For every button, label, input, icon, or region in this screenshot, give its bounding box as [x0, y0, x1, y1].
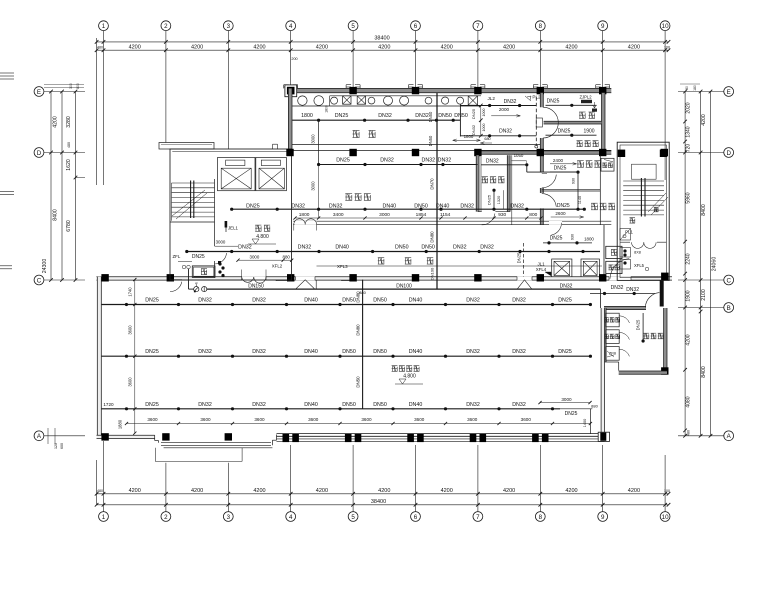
svg-text:4200: 4200	[378, 45, 390, 51]
svg-text:5: 5	[351, 514, 355, 521]
svg-text:8400: 8400	[53, 209, 59, 221]
svg-text:DN25: DN25	[192, 254, 205, 260]
svg-text:DN32: DN32	[329, 203, 343, 209]
svg-text:DN32: DN32	[512, 298, 526, 304]
svg-text:DN32: DN32	[380, 158, 394, 164]
svg-text:DN25: DN25	[145, 298, 159, 304]
svg-text:4200: 4200	[565, 488, 577, 494]
svg-text:DN40: DN40	[304, 349, 318, 355]
svg-text:DN32: DN32	[198, 402, 212, 408]
svg-text:DN100: DN100	[396, 284, 412, 290]
svg-text:DN32: DN32	[460, 203, 474, 209]
svg-text:JL1: JL1	[537, 261, 545, 266]
svg-text:D: D	[37, 150, 42, 157]
svg-text:DN32: DN32	[499, 129, 512, 135]
svg-text:1720: 1720	[103, 402, 114, 407]
svg-text:DN80: DN80	[355, 291, 360, 303]
svg-text:DN50: DN50	[373, 349, 387, 355]
svg-text:2: 2	[164, 23, 168, 30]
svg-text:1620: 1620	[66, 159, 72, 171]
svg-text:4200: 4200	[441, 488, 453, 494]
svg-text:480: 480	[687, 430, 691, 436]
svg-text:3600: 3600	[308, 417, 319, 422]
svg-text:ZFL: ZFL	[172, 254, 180, 259]
svg-text:JL2: JL2	[487, 96, 495, 101]
svg-text:DN80: DN80	[355, 324, 360, 336]
svg-text:DN150: DN150	[248, 284, 264, 290]
svg-text:4: 4	[289, 514, 293, 521]
svg-text:ZJPL2: ZJPL2	[579, 94, 592, 99]
svg-text:DN100: DN100	[430, 267, 435, 280]
svg-text:3: 3	[227, 23, 231, 30]
svg-text:DN25: DN25	[558, 298, 572, 304]
svg-text:9: 9	[601, 514, 605, 521]
svg-text:4200: 4200	[503, 488, 515, 494]
svg-text:XFL5: XFL5	[634, 263, 645, 268]
svg-text:DN40: DN40	[409, 298, 423, 304]
svg-text:DN25: DN25	[565, 411, 578, 417]
svg-text:DN50: DN50	[438, 113, 452, 119]
svg-text:880: 880	[283, 254, 291, 259]
svg-text:DN25: DN25	[557, 203, 570, 209]
svg-text:180: 180	[693, 85, 697, 91]
svg-text:1050: 1050	[514, 153, 524, 158]
svg-text:8400: 8400	[701, 204, 707, 216]
svg-text:DN32: DN32	[512, 349, 526, 355]
svg-text:4200: 4200	[191, 45, 203, 51]
svg-text:6: 6	[414, 23, 418, 30]
svg-text:DN32: DN32	[198, 298, 212, 304]
svg-text:DN50: DN50	[428, 135, 433, 146]
svg-text:8: 8	[539, 23, 543, 30]
svg-text:DN40: DN40	[409, 402, 423, 408]
svg-text:4200: 4200	[129, 45, 141, 51]
svg-text:1740: 1740	[128, 287, 133, 297]
svg-text:9: 9	[601, 23, 605, 30]
svg-text:DN32: DN32	[252, 402, 266, 408]
svg-text:DN32: DN32	[298, 245, 312, 251]
svg-text:DN40: DN40	[436, 203, 450, 209]
svg-text:4080: 4080	[686, 396, 692, 407]
svg-text:4200: 4200	[316, 488, 328, 494]
svg-text:4200: 4200	[316, 45, 328, 51]
svg-text:1: 1	[102, 23, 106, 30]
svg-text:DN32: DN32	[453, 245, 467, 251]
svg-text:3000: 3000	[311, 134, 316, 144]
svg-text:880: 880	[591, 403, 598, 408]
svg-text:2: 2	[164, 514, 168, 521]
svg-text:1320: 1320	[497, 196, 501, 204]
svg-text:1800: 1800	[299, 212, 310, 218]
svg-text:DN40: DN40	[409, 349, 423, 355]
svg-text:4: 4	[289, 23, 293, 30]
svg-text:DN25: DN25	[554, 166, 567, 172]
svg-text:4200: 4200	[253, 45, 265, 51]
svg-text:4200: 4200	[378, 488, 390, 494]
svg-text:480: 480	[67, 142, 71, 148]
svg-text:1: 1	[102, 514, 106, 521]
svg-text:10: 10	[662, 514, 669, 521]
svg-text:1340: 1340	[686, 126, 692, 137]
svg-text:8: 8	[539, 514, 543, 521]
svg-text:1140: 1140	[578, 196, 582, 204]
svg-text:DN32: DN32	[291, 203, 305, 209]
svg-text:XFL4: XFL4	[536, 267, 547, 272]
svg-text:5: 5	[351, 23, 355, 30]
svg-text:800: 800	[529, 212, 537, 218]
svg-text:7: 7	[476, 514, 480, 521]
svg-text:DN32: DN32	[415, 113, 429, 119]
svg-text:1000: 1000	[482, 109, 486, 117]
svg-text:DN25: DN25	[145, 402, 159, 408]
svg-text:3000: 3000	[250, 254, 260, 259]
svg-text:7: 7	[476, 23, 480, 30]
svg-text:DN25: DN25	[335, 113, 349, 119]
svg-text:3000: 3000	[379, 212, 390, 218]
svg-text:800: 800	[76, 83, 80, 89]
svg-text:3600: 3600	[521, 417, 532, 422]
svg-text:4.800: 4.800	[403, 374, 416, 380]
svg-text:DN32: DN32	[560, 284, 573, 290]
svg-text:3600: 3600	[200, 417, 211, 422]
svg-text:3600: 3600	[128, 325, 133, 335]
svg-text:DN50: DN50	[421, 245, 435, 251]
svg-text:XFL3: XFL3	[337, 264, 348, 269]
svg-text:4200: 4200	[628, 488, 640, 494]
svg-text:E: E	[37, 89, 41, 96]
svg-text:DN25: DN25	[550, 235, 563, 241]
svg-text:1900: 1900	[686, 290, 692, 301]
svg-text:JEL1: JEL1	[228, 226, 239, 231]
svg-text:3600: 3600	[467, 417, 478, 422]
svg-text:3600: 3600	[361, 417, 372, 422]
svg-text:DN25: DN25	[145, 349, 159, 355]
svg-text:3000: 3000	[311, 181, 316, 191]
svg-text:1900: 1900	[583, 128, 594, 134]
svg-text:DN32: DN32	[480, 245, 494, 251]
svg-text:DN50: DN50	[373, 298, 387, 304]
svg-text:PL1: PL1	[625, 230, 633, 235]
svg-text:4200: 4200	[565, 45, 577, 51]
svg-text:5960: 5960	[686, 192, 692, 203]
svg-text:DN32: DN32	[471, 124, 476, 135]
svg-text:DN70: DN70	[430, 178, 435, 190]
svg-text:DN32: DN32	[486, 159, 499, 165]
svg-text:C: C	[726, 277, 731, 284]
svg-text:4200: 4200	[628, 45, 640, 51]
svg-text:2020: 2020	[686, 102, 692, 113]
svg-text:D: D	[726, 150, 731, 157]
svg-text:DN25: DN25	[336, 158, 350, 164]
svg-text:10: 10	[662, 23, 669, 30]
svg-text:DN25: DN25	[558, 349, 572, 355]
svg-text:DN32: DN32	[378, 113, 392, 119]
svg-text:DN25: DN25	[471, 108, 476, 119]
svg-text:300: 300	[69, 83, 73, 89]
svg-text:DN40: DN40	[304, 402, 318, 408]
svg-text:DN32: DN32	[422, 158, 436, 164]
svg-text:DN32: DN32	[611, 285, 624, 291]
svg-text:DN32: DN32	[438, 158, 452, 164]
svg-text:2240: 2240	[686, 253, 692, 264]
svg-text:1854: 1854	[416, 212, 427, 218]
svg-text:600: 600	[60, 443, 64, 449]
svg-text:3000: 3000	[216, 240, 226, 245]
svg-text:2600: 2600	[555, 211, 566, 216]
svg-text:4200: 4200	[53, 116, 59, 128]
svg-text:4200: 4200	[503, 45, 515, 51]
svg-text:DN50: DN50	[355, 376, 360, 388]
svg-text:DN32: DN32	[466, 298, 480, 304]
svg-text:6780: 6780	[66, 220, 72, 232]
svg-text:DN32: DN32	[198, 349, 212, 355]
svg-text:DN40: DN40	[383, 203, 397, 209]
svg-text:DN50: DN50	[342, 298, 356, 304]
svg-text:8400: 8400	[701, 366, 707, 378]
svg-text:4200: 4200	[701, 114, 707, 126]
svg-text:1800: 1800	[301, 113, 313, 119]
svg-text:PL2: PL2	[532, 95, 541, 100]
svg-text:930: 930	[570, 234, 574, 240]
svg-text:4200: 4200	[129, 488, 141, 494]
svg-text:120: 120	[54, 443, 58, 449]
svg-text:1800: 1800	[584, 237, 594, 242]
svg-text:1154: 1154	[440, 212, 451, 218]
svg-text:DN50: DN50	[414, 203, 428, 209]
svg-text:4200: 4200	[253, 488, 265, 494]
svg-text:E: E	[727, 89, 731, 96]
svg-text:DN25: DN25	[636, 319, 641, 330]
svg-text:6: 6	[414, 514, 418, 521]
svg-text:DN32: DN32	[512, 402, 526, 408]
svg-text:80: 80	[685, 86, 689, 90]
svg-text:3600: 3600	[128, 377, 133, 387]
svg-text:B: B	[727, 305, 731, 312]
svg-text:DN40: DN40	[304, 298, 318, 304]
svg-text:DN32: DN32	[252, 349, 266, 355]
svg-text:2400: 2400	[553, 158, 564, 163]
svg-text:DN50: DN50	[454, 113, 468, 119]
svg-text:8X8: 8X8	[634, 251, 641, 255]
svg-text:DN32: DN32	[238, 245, 252, 251]
svg-text:24300: 24300	[42, 259, 48, 274]
svg-text:3600: 3600	[254, 417, 265, 422]
svg-text:3600: 3600	[414, 417, 425, 422]
svg-text:DN32: DN32	[626, 287, 639, 293]
svg-text:1400: 1400	[583, 419, 587, 427]
svg-text:DN25: DN25	[246, 203, 260, 209]
svg-text:2100: 2100	[701, 289, 707, 301]
svg-text:1000: 1000	[482, 124, 486, 132]
svg-text:XFL2: XFL2	[272, 263, 283, 268]
svg-text:DN32: DN32	[252, 298, 266, 304]
svg-text:3600: 3600	[147, 417, 158, 422]
svg-text:930: 930	[571, 178, 575, 184]
svg-text:1800: 1800	[325, 105, 329, 113]
svg-text:DN80: DN80	[430, 231, 435, 243]
svg-text:C: C	[37, 277, 42, 284]
svg-text:2000: 2000	[499, 107, 510, 112]
svg-text:4200: 4200	[441, 45, 453, 51]
svg-text:DN32: DN32	[510, 203, 524, 209]
svg-text:200: 200	[291, 57, 297, 61]
svg-text:DN32: DN32	[466, 402, 480, 408]
svg-text:DN25: DN25	[558, 128, 571, 134]
svg-text:DN32: DN32	[466, 349, 480, 355]
svg-text:24060: 24060	[712, 257, 718, 272]
svg-text:3400: 3400	[333, 212, 344, 218]
svg-text:3: 3	[227, 514, 231, 521]
svg-text:DN40: DN40	[335, 245, 349, 251]
svg-text:DN25: DN25	[547, 99, 560, 105]
svg-text:720: 720	[686, 144, 692, 153]
svg-text:DN25: DN25	[517, 252, 522, 263]
svg-text:4200: 4200	[686, 334, 692, 345]
svg-text:680: 680	[484, 137, 490, 141]
svg-text:DN50: DN50	[395, 245, 409, 251]
svg-text:3280: 3280	[66, 116, 72, 128]
svg-text:3000: 3000	[561, 397, 572, 402]
svg-text:38400: 38400	[371, 499, 386, 505]
svg-text:DN50: DN50	[342, 402, 356, 408]
svg-text:DN50: DN50	[373, 402, 387, 408]
svg-text:DN25: DN25	[486, 194, 491, 205]
svg-text:DN50: DN50	[342, 349, 356, 355]
svg-text:4200: 4200	[191, 488, 203, 494]
svg-text:930: 930	[498, 212, 506, 218]
svg-text:DN50: DN50	[428, 111, 433, 122]
svg-text:1880: 1880	[118, 419, 123, 429]
svg-text:DN32: DN32	[504, 99, 517, 105]
svg-text:38400: 38400	[374, 36, 389, 42]
